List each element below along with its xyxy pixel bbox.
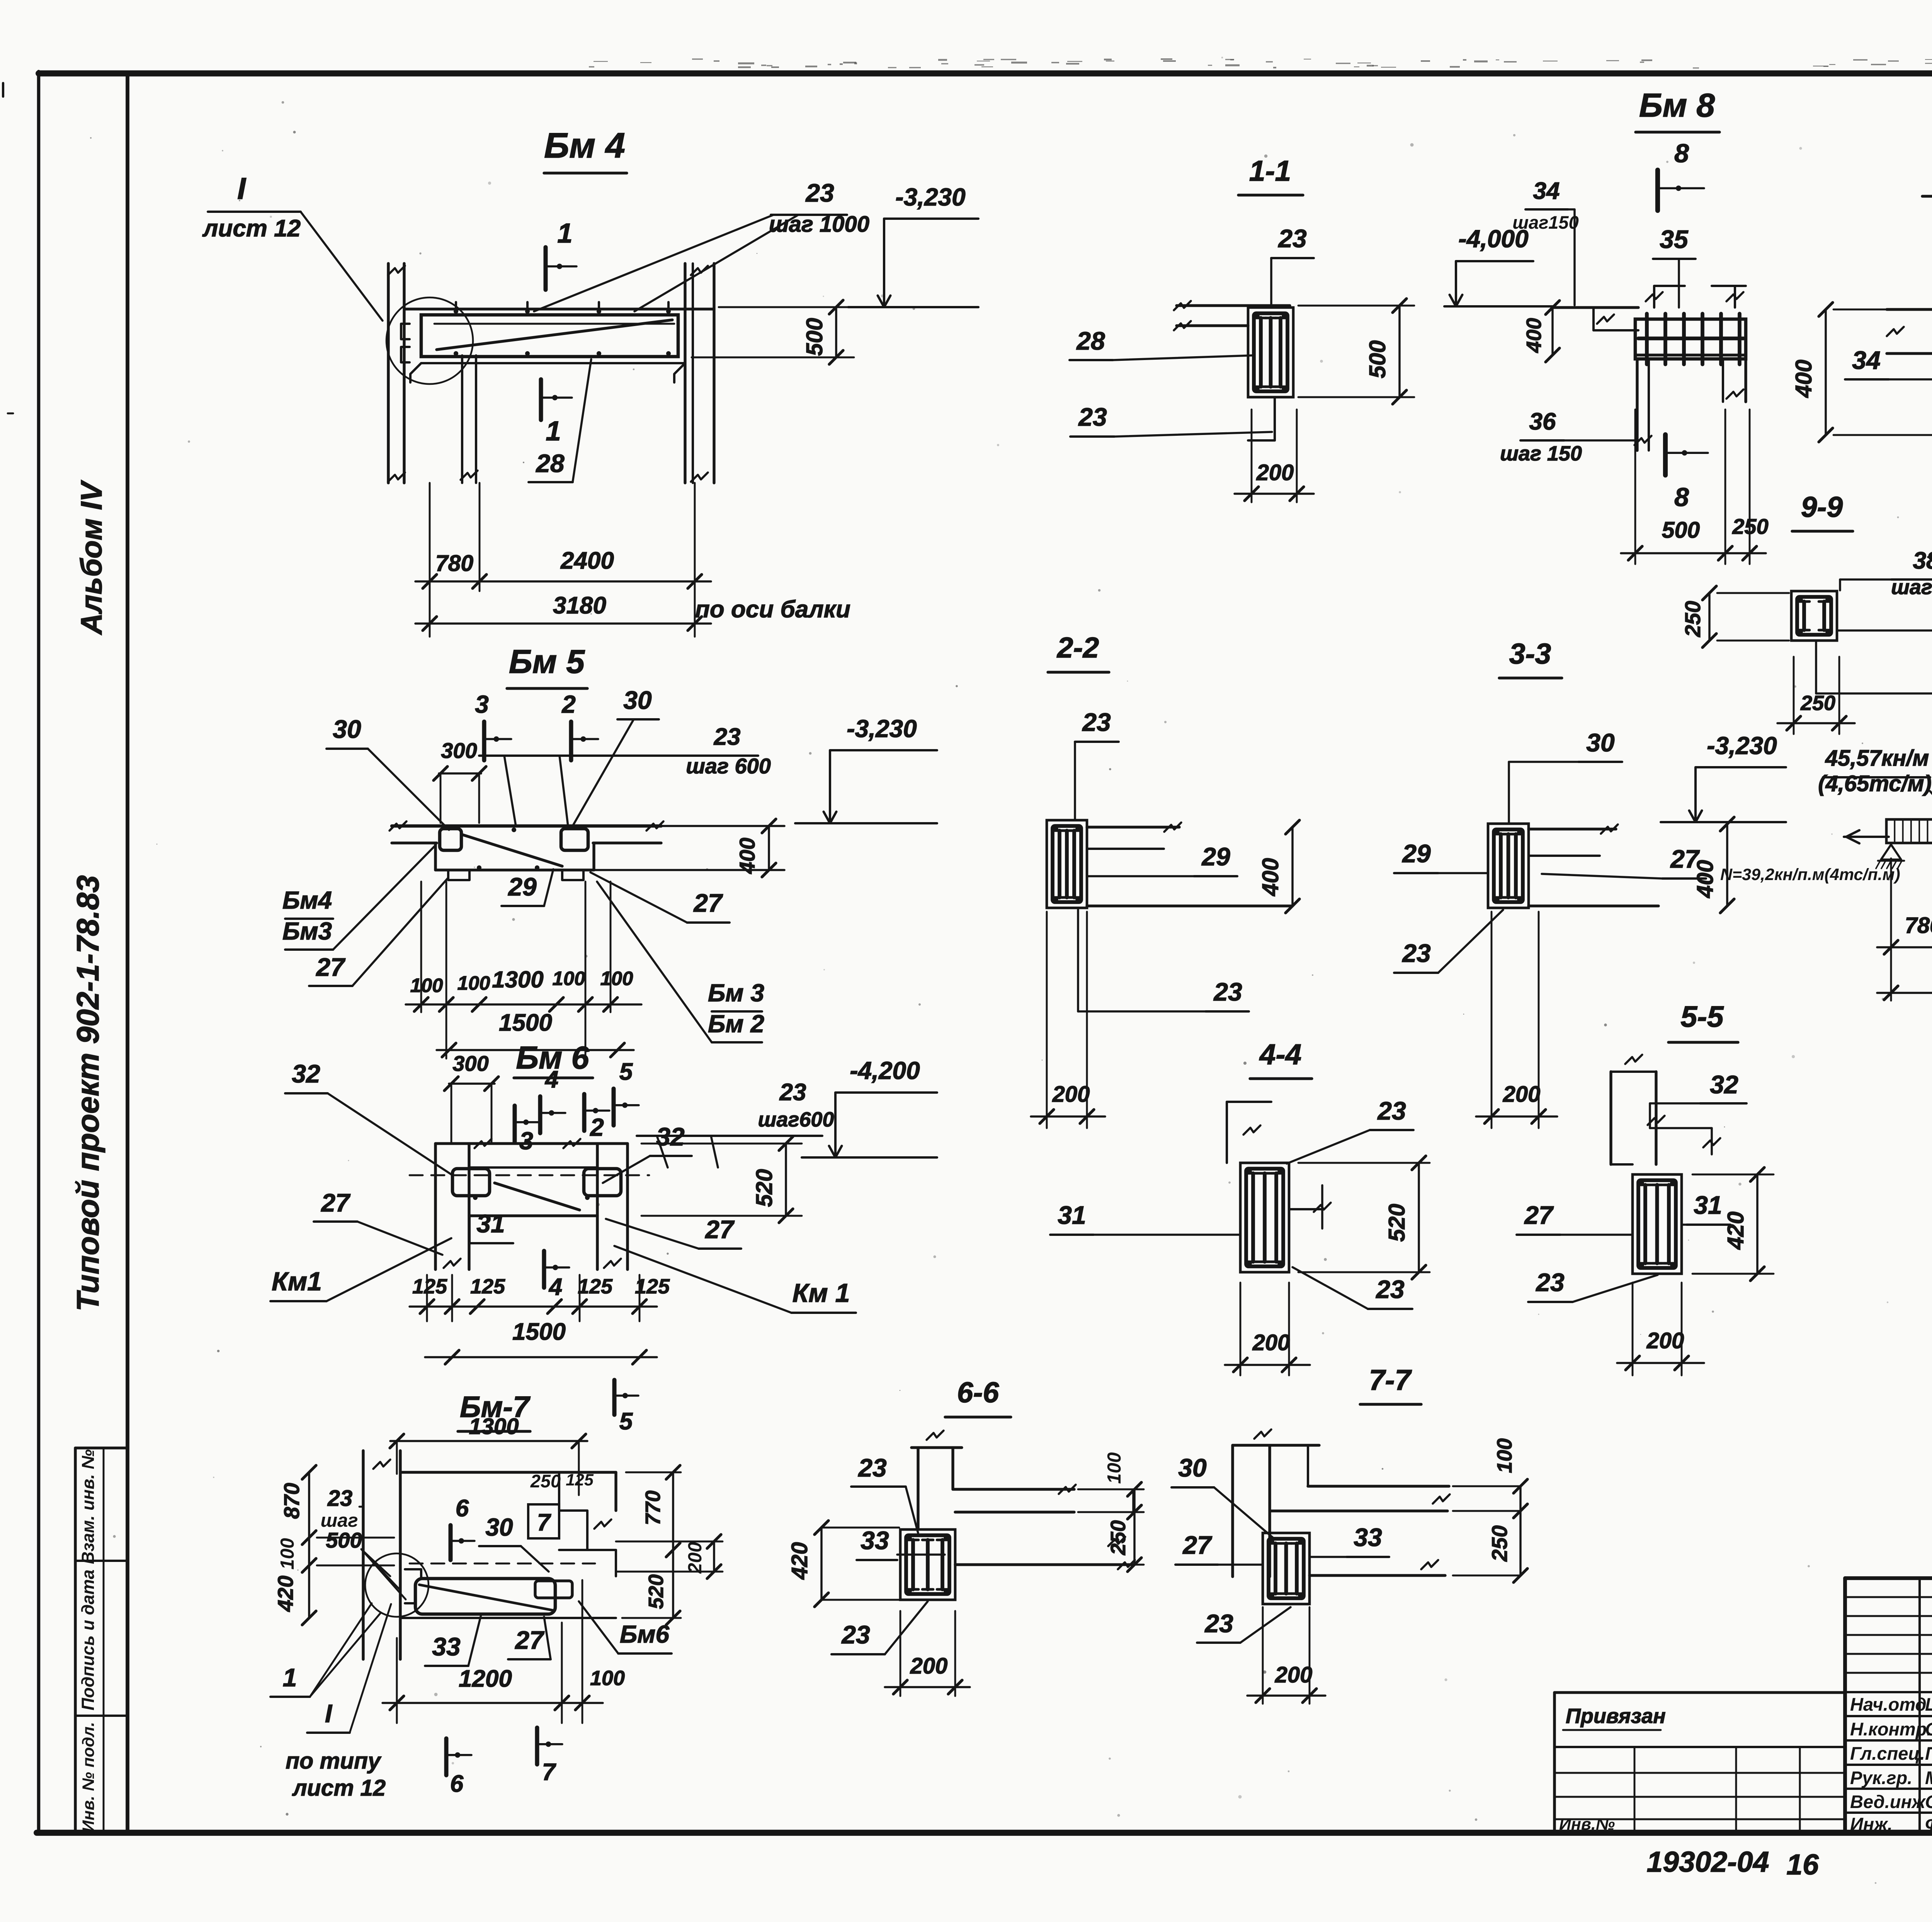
- svg-text:Бм 4: Бм 4: [544, 126, 625, 165]
- svg-text:23: 23: [1277, 224, 1306, 253]
- svg-text:23: 23: [1204, 1609, 1233, 1638]
- svg-text:6: 6: [450, 1771, 464, 1797]
- svg-text:30: 30: [485, 1513, 513, 1541]
- svg-text:28: 28: [535, 449, 565, 478]
- svg-text:23: 23: [1078, 403, 1107, 431]
- svg-text:Бм6: Бм6: [620, 1620, 670, 1648]
- svg-text:Нач.отд: Нач.отд: [1850, 1694, 1927, 1715]
- svg-text:2: 2: [561, 690, 576, 718]
- svg-text:250: 250: [1800, 692, 1835, 715]
- svg-text:4: 4: [544, 1066, 558, 1093]
- svg-text:31: 31: [476, 1209, 505, 1238]
- svg-text:400: 400: [1692, 860, 1718, 899]
- svg-text:30: 30: [333, 715, 361, 743]
- svg-text:30: 30: [1178, 1453, 1207, 1482]
- svg-text:23: 23: [1375, 1275, 1404, 1303]
- svg-text:45,57кн/м: 45,57кн/м: [1825, 746, 1929, 771]
- svg-text:Бм 3: Бм 3: [708, 979, 764, 1007]
- svg-text:1: 1: [557, 218, 573, 249]
- svg-text:Бм 5: Бм 5: [509, 643, 585, 680]
- svg-text:250: 250: [1680, 601, 1705, 637]
- svg-text:Рук.гр.: Рук.гр.: [1850, 1767, 1912, 1788]
- svg-text:Типовой проект 902-1-78.83: Типовой проект 902-1-78.83: [71, 875, 105, 1311]
- svg-text:по типу: по типу: [286, 1748, 382, 1774]
- svg-text:500: 500: [802, 318, 827, 356]
- svg-text:27: 27: [1524, 1201, 1554, 1229]
- svg-text:Сокольская: Сокольская: [1925, 1719, 1932, 1739]
- svg-text:2: 2: [590, 1113, 604, 1141]
- svg-text:4-4: 4-4: [1259, 1038, 1301, 1071]
- svg-text:2-2: 2-2: [1056, 631, 1099, 664]
- svg-text:200: 200: [1052, 1082, 1090, 1107]
- svg-text:-3,230: -3,230: [1707, 732, 1777, 760]
- svg-text:7-7: 7-7: [1369, 1364, 1412, 1396]
- svg-text:100: 100: [410, 974, 443, 996]
- svg-text:Привязан: Привязан: [1566, 1704, 1666, 1728]
- svg-text:23: 23: [1535, 1268, 1564, 1297]
- svg-text:3-3: 3-3: [1509, 637, 1551, 670]
- svg-text:9-9: 9-9: [1801, 491, 1843, 523]
- svg-text:6: 6: [456, 1495, 469, 1522]
- svg-text:Однорал: Однорал: [1925, 1791, 1932, 1812]
- svg-text:23: 23: [1377, 1096, 1406, 1125]
- svg-text:100: 100: [1104, 1452, 1125, 1484]
- svg-text:Шейко: Шейко: [1925, 1694, 1932, 1715]
- svg-text:8: 8: [1674, 139, 1689, 168]
- svg-text:1300: 1300: [469, 1414, 519, 1439]
- svg-text:1: 1: [546, 416, 561, 447]
- svg-text:по оси балки: по оси балки: [695, 596, 850, 623]
- svg-text:Бм3: Бм3: [282, 917, 332, 945]
- svg-text:29: 29: [1401, 839, 1431, 868]
- svg-text:Альбом IV: Альбом IV: [75, 480, 108, 636]
- svg-text:7: 7: [537, 1509, 551, 1536]
- svg-text:34: 34: [1533, 178, 1560, 204]
- svg-text:31: 31: [1694, 1191, 1722, 1219]
- svg-text:Км 1: Км 1: [793, 1278, 850, 1308]
- svg-text:лист 12: лист 12: [292, 1775, 386, 1801]
- svg-text:шаг600: шаг600: [758, 1108, 834, 1131]
- svg-text:420: 420: [1723, 1212, 1748, 1250]
- svg-text:400: 400: [1791, 360, 1816, 398]
- svg-text:32: 32: [1710, 1070, 1738, 1099]
- svg-text:23: 23: [779, 1079, 806, 1106]
- svg-text:23: 23: [841, 1620, 870, 1649]
- svg-text:Постников: Постников: [1925, 1743, 1932, 1764]
- svg-text:-4,000: -4,000: [1458, 225, 1528, 253]
- svg-text:30: 30: [1586, 728, 1615, 757]
- svg-text:27: 27: [514, 1626, 545, 1654]
- svg-text:I: I: [237, 171, 247, 206]
- svg-text:7: 7: [542, 1759, 556, 1786]
- svg-text:870: 870: [279, 1483, 304, 1519]
- svg-text:125: 125: [412, 1275, 447, 1298]
- svg-text:5: 5: [619, 1059, 633, 1085]
- svg-text:27: 27: [315, 953, 346, 981]
- svg-text:300: 300: [441, 738, 477, 763]
- svg-text:29: 29: [1201, 842, 1230, 871]
- svg-text:Подпись и дата: Подпись и дата: [78, 1570, 98, 1711]
- svg-text:2400: 2400: [560, 547, 614, 574]
- svg-text:Бм 8: Бм 8: [1639, 87, 1715, 124]
- svg-text:100: 100: [590, 1667, 625, 1690]
- svg-text:250: 250: [1487, 1525, 1512, 1562]
- svg-text:770: 770: [641, 1490, 665, 1525]
- svg-text:36: 36: [1529, 408, 1556, 435]
- svg-text:100: 100: [552, 967, 585, 989]
- svg-text:250: 250: [530, 1471, 561, 1491]
- svg-text:32: 32: [656, 1122, 685, 1151]
- svg-text:N=39,2кн/п.м(4тс/п.м): N=39,2кн/п.м(4тс/п.м): [1720, 865, 1900, 884]
- svg-text:200: 200: [1503, 1082, 1541, 1107]
- svg-text:34: 34: [1852, 346, 1880, 374]
- svg-text:780: 780: [435, 551, 474, 576]
- svg-text:200: 200: [1256, 460, 1294, 485]
- svg-text:27: 27: [704, 1215, 735, 1244]
- svg-text:200: 200: [1646, 1328, 1684, 1353]
- svg-text:Взам. инв. №: Взам. инв. №: [78, 1449, 98, 1564]
- svg-text:500: 500: [326, 1528, 362, 1552]
- svg-text:420: 420: [787, 1542, 812, 1580]
- svg-text:780: 780: [1905, 913, 1932, 938]
- svg-text:500: 500: [1662, 517, 1700, 543]
- svg-text:35: 35: [1660, 225, 1689, 253]
- svg-text:19302-04: 19302-04: [1647, 1846, 1769, 1878]
- svg-text:100: 100: [277, 1538, 298, 1570]
- svg-text:33: 33: [1354, 1523, 1382, 1552]
- svg-text:шаг 1000: шаг 1000: [769, 212, 869, 237]
- svg-text:400: 400: [735, 838, 759, 874]
- svg-text:5: 5: [619, 1408, 633, 1435]
- svg-text:Инв.№: Инв.№: [1559, 1815, 1615, 1834]
- svg-text:200: 200: [1252, 1330, 1290, 1355]
- svg-text:27: 27: [1182, 1531, 1213, 1559]
- svg-text:-4,200: -4,200: [850, 1057, 920, 1084]
- svg-text:Н.контр.: Н.контр.: [1850, 1719, 1932, 1739]
- svg-text:250: 250: [1107, 1520, 1130, 1555]
- svg-text:28: 28: [1076, 326, 1105, 355]
- svg-text:520: 520: [752, 1169, 777, 1207]
- svg-text:-3,230: -3,230: [895, 183, 965, 211]
- svg-text:1500: 1500: [499, 1009, 552, 1036]
- svg-text:шаг 600: шаг 600: [686, 754, 771, 778]
- svg-text:23: 23: [857, 1453, 886, 1482]
- svg-text:шаг 150: шаг 150: [1500, 442, 1582, 465]
- svg-text:200: 200: [910, 1653, 948, 1679]
- svg-text:200: 200: [1275, 1662, 1313, 1687]
- svg-text:400: 400: [1258, 858, 1283, 897]
- svg-text:23: 23: [1082, 708, 1111, 736]
- svg-text:300: 300: [452, 1051, 488, 1076]
- svg-text:23: 23: [714, 724, 741, 750]
- svg-text:Вед.инж: Вед.инж: [1850, 1791, 1926, 1812]
- svg-text:400: 400: [1522, 318, 1546, 353]
- svg-text:5-5: 5-5: [1680, 1000, 1724, 1033]
- svg-text:520: 520: [645, 1574, 668, 1609]
- svg-text:23: 23: [1401, 939, 1430, 967]
- svg-text:Бм 2: Бм 2: [708, 1010, 764, 1038]
- svg-text:23: 23: [805, 178, 834, 207]
- svg-text:Инв. № подл.: Инв. № подл.: [79, 1722, 98, 1832]
- svg-text:Гл.спец.: Гл.спец.: [1850, 1743, 1925, 1764]
- svg-text:100: 100: [600, 967, 633, 989]
- svg-text:23: 23: [327, 1486, 353, 1511]
- svg-text:125: 125: [635, 1275, 670, 1298]
- svg-text:33: 33: [432, 1632, 460, 1661]
- svg-text:30: 30: [623, 686, 652, 714]
- svg-text:250: 250: [1732, 514, 1768, 539]
- svg-text:8: 8: [1674, 483, 1689, 512]
- svg-text:31: 31: [1058, 1201, 1086, 1229]
- svg-text:33: 33: [861, 1526, 889, 1555]
- svg-text:29: 29: [507, 872, 537, 901]
- svg-text:Мазаева: Мазаева: [1925, 1767, 1932, 1788]
- svg-text:100: 100: [1493, 1438, 1516, 1473]
- svg-text:Филиппова: Филиппова: [1925, 1814, 1932, 1834]
- svg-text:420: 420: [273, 1575, 298, 1612]
- svg-text:125: 125: [578, 1275, 613, 1298]
- svg-text:4: 4: [548, 1274, 562, 1300]
- svg-text:27: 27: [693, 889, 723, 917]
- svg-text:125: 125: [470, 1275, 505, 1298]
- svg-text:100: 100: [457, 972, 490, 994]
- svg-text:Км1: Км1: [272, 1267, 322, 1296]
- svg-text:1500: 1500: [512, 1319, 566, 1345]
- svg-text:500: 500: [1365, 340, 1390, 379]
- svg-text:38: 38: [1913, 547, 1932, 574]
- svg-text:3: 3: [475, 690, 489, 718]
- svg-text:520: 520: [1384, 1204, 1410, 1242]
- svg-text:-3,230: -3,230: [847, 715, 917, 743]
- svg-text:3180: 3180: [553, 592, 606, 619]
- svg-text:6-6: 6-6: [957, 1376, 1000, 1409]
- svg-text:16: 16: [1786, 1848, 1819, 1881]
- svg-text:Инж.: Инж.: [1850, 1814, 1893, 1834]
- svg-text:(4,65тс/м): (4,65тс/м): [1818, 771, 1932, 796]
- svg-text:200: 200: [685, 1542, 706, 1574]
- svg-text:3: 3: [519, 1127, 533, 1155]
- svg-text:1200: 1200: [459, 1665, 512, 1692]
- svg-text:I: I: [325, 1699, 333, 1728]
- svg-text:1300: 1300: [492, 967, 543, 992]
- svg-text:лист 12: лист 12: [202, 215, 301, 242]
- svg-text:125: 125: [566, 1471, 594, 1489]
- svg-text:шаг 200: шаг 200: [1891, 576, 1932, 599]
- svg-text:27: 27: [320, 1188, 351, 1217]
- svg-text:23: 23: [1213, 977, 1242, 1006]
- svg-text:1: 1: [283, 1663, 297, 1692]
- svg-text:1-1: 1-1: [1249, 155, 1291, 187]
- svg-text:32: 32: [292, 1059, 320, 1088]
- svg-text:Бм4: Бм4: [282, 886, 332, 914]
